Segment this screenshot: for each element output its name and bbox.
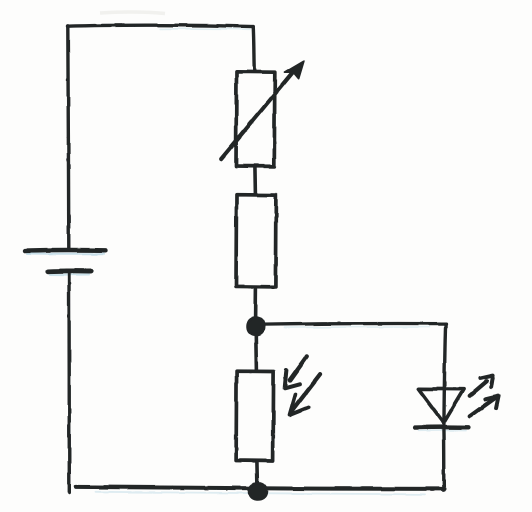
LDR R3 body: [236, 371, 274, 461]
wire right vertical lower (LED to bottom rail): [442, 428, 446, 490]
wire right vertical upper (node rail to LED): [444, 324, 446, 427]
wire LDR to bottom node: [255, 461, 259, 486]
wire node to LED branch (horizontal): [262, 323, 446, 327]
LED D1 light arrow upper: [470, 376, 493, 396]
faint scan smudge top: [100, 12, 165, 13]
variable resistor R1 arrow: [221, 61, 304, 159]
node junction dot: [247, 318, 263, 335]
battery BT1: [25, 250, 106, 275]
wire resistor to node: [254, 287, 258, 320]
wire top horizontal: [68, 25, 254, 29]
wire bottom horizontal: [76, 487, 445, 495]
wire left vertical upper (top rail to battery): [68, 26, 69, 250]
LED D1 cathode bar: [415, 427, 469, 431]
LDR R3 light arrow lower: [290, 375, 320, 416]
wire between rheostat and resistor: [254, 166, 258, 194]
bottom node junction dot: [249, 483, 267, 499]
wire node to LDR: [254, 335, 258, 372]
wire top right vertical (top rail to rheostat): [253, 27, 254, 72]
variable resistor (rheostat) R1 body: [236, 72, 275, 167]
LED D1 light arrow lower: [470, 396, 499, 416]
LED D1 triangle: [418, 389, 463, 423]
resistor R2 body: [236, 195, 276, 287]
LDR R3 light arrow upper: [285, 356, 307, 388]
wire left vertical lower (battery to bottom rail): [67, 272, 71, 493]
